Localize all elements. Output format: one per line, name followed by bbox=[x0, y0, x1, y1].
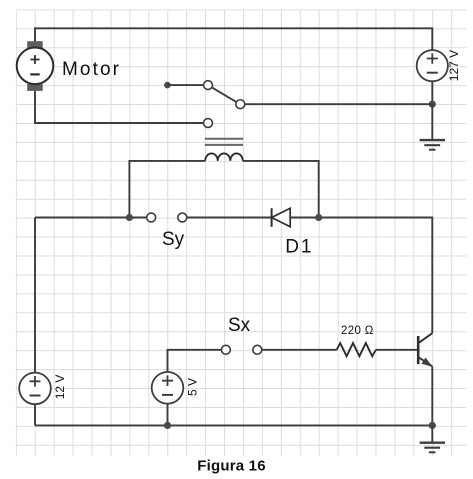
svg-text:127 V: 127 V bbox=[447, 50, 461, 81]
relay K1 coil L bbox=[205, 153, 243, 161]
node junction 5V / bottom rail bbox=[164, 422, 171, 429]
wire motor top lead and top rail to V1 bbox=[35, 28, 432, 50]
switch Sy terminal left bbox=[147, 213, 156, 222]
svg-text:12 V: 12 V bbox=[53, 375, 67, 400]
wire 5V to bottom rail bbox=[167, 404, 169, 426]
wire V1 to junction bbox=[431, 81, 433, 104]
wire emitter to bottom rail bbox=[431, 366, 433, 425]
voltage source V3 5 V bbox=[152, 372, 184, 404]
transistor Q1 bbox=[418, 333, 432, 366]
wire 5V branch top bbox=[168, 350, 222, 372]
wire bottom rail bbox=[35, 424, 432, 426]
ground GND2 bbox=[420, 443, 445, 453]
resistor R1 220 ohm bbox=[337, 343, 376, 356]
relay K1 switch: NO terminal bbox=[236, 100, 245, 109]
relay K1 switch: lever bbox=[212, 87, 237, 102]
switch Sx terminal left bbox=[221, 345, 230, 354]
svg-text:220 Ω: 220 Ω bbox=[341, 325, 374, 337]
wire junction to ground bbox=[431, 104, 433, 140]
svg-text:Sy: Sy bbox=[162, 229, 185, 250]
wire resistor to base bbox=[376, 349, 418, 351]
motor M bbox=[17, 41, 54, 91]
wire 12V to bottom rail bbox=[34, 404, 36, 425]
wire NO terminal to junction bbox=[245, 103, 433, 105]
relay K1 switch: anchor dot bbox=[164, 82, 171, 89]
svg-text:Figura 16: Figura 16 bbox=[197, 457, 266, 474]
svg-text:5 V: 5 V bbox=[185, 378, 199, 396]
relay K1 switch: pole stub wire bbox=[167, 84, 203, 86]
wire junction to ground 2 bbox=[431, 425, 433, 442]
node junction V1/relay NO bbox=[429, 101, 436, 108]
node junction coil right / main rail bbox=[315, 214, 322, 221]
node junction emitter / bottom rail bbox=[429, 422, 436, 429]
wire 12V rail down bbox=[34, 218, 36, 373]
wire main rail left (12V rail to Sy) bbox=[35, 217, 147, 219]
relay K1 core bbox=[205, 139, 243, 145]
svg-text:D1: D1 bbox=[285, 237, 313, 258]
voltage source V2 12 V bbox=[19, 373, 51, 405]
svg-text:Motor: Motor bbox=[62, 59, 121, 80]
node junction coil left / main rail bbox=[126, 214, 133, 221]
wire coil branch left bbox=[129, 161, 205, 218]
wire motor bottom lead to NC terminal bbox=[35, 91, 204, 123]
wire diode to right rail, down to collector bbox=[290, 218, 432, 334]
wire coil branch right bbox=[243, 161, 319, 218]
wire Sy to diode D1 bbox=[187, 217, 272, 219]
relay K1 switch: NC terminal bbox=[204, 119, 213, 128]
ground GND1 bbox=[420, 140, 445, 150]
wire Sx to resistor bbox=[262, 349, 337, 351]
svg-text:Sx: Sx bbox=[228, 315, 251, 336]
voltage source V1 127 V bbox=[417, 50, 448, 81]
diode D1 bbox=[272, 208, 291, 227]
switch Sx terminal right bbox=[253, 345, 262, 354]
switch Sy terminal right bbox=[178, 213, 187, 222]
relay K1 switch: pole terminal bbox=[204, 81, 213, 90]
